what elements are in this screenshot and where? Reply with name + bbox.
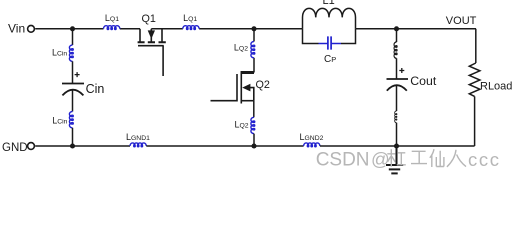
wire LCin branch top [72,31,74,45]
svg-text:Q1: Q1 [142,13,156,25]
hanzi xian [430,149,444,167]
wire LCin lower to gnd rail [72,128,74,146]
inductor L1 [303,8,356,28]
node GND terminal [28,143,35,150]
hanzi gang [387,149,406,166]
resistor RLoad [469,63,480,96]
node junction LCin/gnd rail [70,143,75,148]
wire Cout to lower ESL [396,86,398,111]
svg-text:Cin: Cin [86,82,105,96]
inductor ESL Cout lower [395,111,397,123]
wire gnd rail left [35,145,130,147]
wire gnd rail middle [146,145,303,147]
inductor LQ1 (right) [183,26,199,30]
inductor LQ2 (lower) [251,117,255,133]
svg-text:L1: L1 [323,0,335,7]
svg-text:Q2: Q2 [256,79,270,91]
wire gnd rail right [320,145,475,147]
wire LQ2 top branch [241,31,254,73]
wire ESL lower to gnd rail [396,123,398,146]
inductor LGND1 [130,143,146,147]
wire Vin to Q1 drain [35,28,140,30]
svg-text:RLoad: RLoad [480,81,512,93]
wire RLoad to gnd rail [474,96,476,146]
wire VOUT drop to RLoad [475,29,477,63]
capacitor Cin [62,72,84,95]
svg-text:Cout: Cout [410,74,437,88]
transistor Q1 [138,29,166,76]
capacitor Cout [387,68,409,91]
inductor ESL Cout upper [394,42,397,58]
node junction LQ2/gnd rail [251,143,256,148]
wire switch node: Q1 source to tank [151,28,302,30]
watermark CSDN [316,149,501,171]
hanzi ren [447,150,466,167]
node junction Cout top [394,26,399,31]
node junction Cout bottom [394,143,399,148]
inductor LQ2 (upper) [251,42,255,58]
ground symbol [386,148,403,173]
svg-text:Vin: Vin [8,22,25,36]
inductor LCin (lower) [69,112,73,128]
svg-text:GND: GND [2,142,28,154]
wire LQ2 lower to gnd rail [253,134,255,146]
wire Cout branch top [396,31,398,42]
wire Q2 source to LQ2 lower [253,101,255,118]
inductor LGND2 [304,143,320,147]
svg-text:VOUT: VOUT [446,15,477,27]
svg-text:@: @ [371,149,390,170]
node junction switch/LQ2 top [251,26,256,31]
svg-text:ccc: ccc [468,149,501,170]
watermark hanzi [387,149,466,167]
node Vin terminal [28,25,35,32]
wire LCin to Cin [72,61,74,83]
capacitor Cp branch [303,29,356,50]
wire ESL to Cout [396,58,398,79]
node junction Vin/LCin [70,26,75,31]
transistor Q2 [211,73,255,104]
wire Cin to LCin lower [72,90,74,111]
wire tank to VOUT [356,28,477,30]
svg-text:CP: CP [324,54,336,65]
svg-text:CSDN: CSDN [316,150,370,171]
inductor LQ1 (left) [104,26,120,30]
inductor LCin (upper) [69,45,73,61]
hanzi gong [411,151,427,163]
